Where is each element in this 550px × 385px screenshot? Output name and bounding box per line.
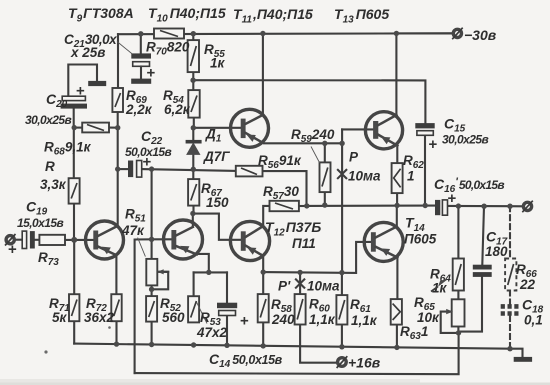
svg-text:0,1: 0,1	[524, 313, 543, 328]
wire R72 bottom to rail	[115, 321, 117, 344]
node output R57	[304, 203, 309, 208]
label R68	[44, 140, 92, 158]
wire diode column upper	[192, 128, 194, 179]
wire R59 top lead	[324, 143, 326, 162]
label C16	[434, 176, 504, 195]
node R67 bottom	[190, 211, 195, 216]
wire R53 top lead	[193, 272, 195, 296]
node R65 wiper	[456, 330, 461, 335]
capacitor C17 180	[473, 265, 492, 277]
resistor R58 240	[258, 294, 269, 322]
label R62	[403, 153, 424, 184]
meter point P' x10ma	[296, 279, 304, 287]
node C22 left	[115, 166, 120, 171]
potentiometer R51 47k	[146, 259, 168, 286]
resistor R69 2.2k	[112, 88, 123, 112]
wire T10 collector to R67 node	[192, 214, 194, 227]
wire R64 top lead	[457, 206, 459, 258]
svg-text:30,0х25в: 30,0х25в	[25, 113, 72, 127]
svg-text:−30в: −30в	[464, 27, 497, 43]
node R68 right	[115, 125, 120, 130]
wire T14 emitter to R63	[396, 257, 398, 299]
svg-text:22: 22	[519, 277, 536, 292]
wire bootstrap y80 to C15	[193, 80, 425, 123]
svg-text:х 25в: х 25в	[70, 45, 105, 60]
wire R52 bottom to rail	[151, 322, 153, 345]
wire R51 bottom to R52	[151, 285, 153, 296]
wire C20 to chassis loop	[68, 65, 97, 97]
label R57	[263, 184, 299, 202]
wire T13 emitter to R62	[396, 145, 398, 163]
svg-text:150: 150	[206, 195, 229, 210]
resistor R66 22 dashed	[505, 206, 516, 290]
label R52	[160, 296, 185, 325]
wire C14 bottom lead	[226, 316, 228, 346]
pointer R59 label	[311, 147, 320, 164]
wire T13 collector to rail	[395, 33, 397, 115]
wire R67 node to T12 base	[193, 214, 241, 240]
node rail R72	[114, 341, 119, 346]
label R 3.3k	[40, 159, 67, 192]
wire midline C22 left lead	[118, 168, 128, 170]
terminal +16v	[337, 356, 348, 368]
resistor R72 36x2	[111, 294, 121, 321]
node rail R53	[191, 342, 196, 347]
wire left column R69/C22 feedback	[117, 34, 119, 226]
label R67	[201, 181, 229, 210]
label P meter	[348, 150, 381, 184]
svg-text:1: 1	[407, 169, 415, 184]
wire C14 top lead	[226, 272, 228, 302]
wire C15 bottom to output	[424, 136, 426, 206]
node rail T13	[394, 31, 399, 36]
wire R64 to R65	[457, 291, 459, 300]
resistor R62 1	[392, 163, 403, 193]
svg-text:10ма: 10ма	[307, 279, 340, 294]
svg-text:R: R	[45, 159, 55, 174]
svg-text:47к: 47к	[121, 223, 145, 238]
node midline diode	[191, 167, 196, 172]
wire T11 collector to rail	[262, 34, 264, 115]
wire R58 leads	[262, 272, 264, 346]
pointer R51 label	[138, 238, 146, 257]
node midline R51	[149, 166, 154, 171]
svg-text:5к: 5к	[52, 310, 68, 325]
wire emitter bus y272 left	[194, 271, 227, 273]
label R72	[84, 296, 115, 325]
pointer C21 label	[117, 42, 132, 55]
transistor label T10	[148, 5, 226, 25]
transistor T11	[231, 109, 269, 147]
label C22	[125, 128, 172, 159]
svg-text:1,1к: 1,1к	[309, 312, 336, 327]
svg-text:47х2: 47х2	[196, 325, 228, 340]
svg-text:50,0х15в: 50,0х15в	[125, 145, 172, 159]
label C21	[64, 32, 117, 60]
wire midline C22 to R56	[142, 169, 236, 171]
wire T11 base lead	[193, 127, 240, 129]
label C18	[522, 297, 544, 328]
label R61	[350, 297, 378, 328]
svg-text:+16в: +16в	[348, 355, 381, 371]
wire T12 collector to R57	[263, 206, 269, 226]
resistor R61 1.1k	[336, 295, 347, 324]
node output R66	[507, 204, 512, 209]
terminal -30v	[452, 28, 463, 40]
wire C20 bottom to R68 node	[73, 109, 75, 128]
transistor T13	[365, 112, 402, 149]
label R64	[430, 267, 451, 296]
resistor R64 1k	[453, 259, 464, 291]
label R59	[291, 127, 335, 145]
node bias R60	[297, 270, 302, 275]
resistor R68 9.1k	[82, 123, 109, 133]
svg-text:30,0х25в: 30,0х25в	[442, 133, 489, 147]
terminal input	[5, 234, 16, 246]
resistor R70 820	[154, 29, 184, 39]
label T12	[265, 219, 321, 251]
wire R73 to T9 base	[65, 239, 93, 241]
wire R71 column	[73, 240, 75, 344]
wire T11 emitter bus y143	[262, 142, 343, 143]
label C17	[485, 229, 508, 260]
stray scan mark after T11 title	[305, 15, 308, 18]
label R73	[38, 250, 59, 268]
resistor R56 91k	[236, 166, 263, 177]
node output R62	[394, 203, 399, 208]
wire R68 left lead	[74, 127, 82, 129]
transistor T14	[364, 222, 403, 261]
svg-text:10ма: 10ма	[348, 169, 381, 184]
label R65	[414, 295, 440, 325]
transistor T9	[86, 221, 124, 259]
transistor label T9	[68, 5, 134, 25]
node output R64	[456, 203, 461, 208]
wire R51 pot column	[151, 169, 153, 259]
node output C17	[481, 204, 486, 209]
resistor R 3.3k	[69, 178, 80, 203]
label C19	[17, 199, 64, 231]
node T11 emitter R59	[322, 141, 327, 146]
node rail R52	[149, 342, 154, 347]
capacitor C20 30.0x25v with chassis bar	[61, 81, 107, 109]
resistor R71 5k	[69, 294, 79, 321]
node T13 base column	[339, 141, 344, 146]
label -30v	[464, 27, 497, 43]
node output R59	[322, 202, 327, 207]
node R55 R54 bootstrap	[190, 78, 195, 83]
node T9 base	[71, 237, 77, 243]
node T10 emitter	[206, 270, 211, 275]
DIODE D1 D7G	[186, 140, 202, 155]
meter point P x10ma	[338, 170, 346, 178]
label P' meter	[278, 279, 340, 294]
stray scan mark after R72 value	[108, 326, 111, 329]
node rail ground corner	[507, 346, 512, 351]
label T14	[404, 215, 437, 247]
transistor label T13	[334, 6, 389, 26]
capacitor C15 30.0x25v	[415, 123, 437, 153]
transistor label T11	[233, 6, 313, 26]
svg-text:2,2к: 2,2к	[125, 102, 153, 117]
label R53	[196, 310, 228, 340]
label R69	[125, 88, 153, 117]
svg-text:560: 560	[162, 310, 185, 325]
capacitor C16 50.0x15v	[435, 190, 457, 215]
label R56	[258, 153, 302, 171]
wire R61 leads	[341, 273, 343, 347]
terminal output	[522, 201, 533, 213]
svg-text:+: +	[147, 65, 156, 82]
capacitor C22 50.0x15v	[128, 154, 152, 178]
wire T13 base lead	[342, 128, 373, 130]
label R60	[309, 297, 336, 328]
resistor R67 150	[188, 179, 199, 206]
resistor R73	[39, 235, 65, 245]
node rail C14	[224, 343, 229, 348]
label C14	[209, 351, 283, 370]
svg-text:Д7Г: Д7Г	[203, 149, 230, 164]
wire R57 right lead	[299, 205, 307, 207]
node R51 wiper	[149, 287, 154, 292]
label R58	[271, 297, 295, 327]
svg-text:+: +	[240, 313, 249, 330]
transistor T12	[230, 221, 269, 260]
resistor R55 1k	[188, 40, 199, 72]
svg-text:+: +	[429, 136, 438, 153]
ground chassis symbol	[514, 357, 532, 362]
wire T12 emitter lead	[261, 255, 263, 272]
label R54	[163, 88, 191, 117]
wire T10 emitter elbow	[197, 254, 209, 272]
svg-text:180: 180	[485, 244, 508, 259]
resistor R59 240	[320, 162, 331, 192]
wire R65 bottom	[457, 327, 459, 333]
wire P meter column	[341, 129, 343, 272]
svg-text:10к: 10к	[417, 310, 440, 325]
wire ground rail	[74, 344, 510, 349]
svg-text:1,1к: 1,1к	[351, 313, 378, 328]
node T11 base	[191, 125, 196, 130]
capacitor C14 50.0x15v	[217, 303, 249, 330]
wire R59 bottom lead	[324, 192, 326, 205]
wire T14 collector to output	[396, 206, 398, 226]
label R66	[516, 262, 537, 292]
wire top supply rail -30v	[118, 32, 453, 35]
wire C19 to R73	[35, 239, 40, 241]
wire -30v terminal lead	[396, 32, 453, 34]
node rail C21	[138, 31, 143, 36]
svg-text:3,3к: 3,3к	[40, 177, 67, 192]
svg-text:П605: П605	[404, 232, 437, 247]
svg-text:П11: П11	[292, 236, 316, 251]
wire ground symbol elbow	[510, 349, 523, 357]
svg-text:+: +	[76, 83, 85, 100]
resistor R52 560	[146, 296, 157, 322]
svg-text:1к: 1к	[210, 56, 226, 71]
wire T9 emitter column to R72	[115, 255, 117, 295]
label +16v	[348, 355, 381, 371]
capacitor C21 30.0x25v with chassis bar	[131, 53, 155, 83]
label R70	[146, 40, 190, 58]
wire bias bus y272 to T14 base	[263, 242, 371, 273]
resistor R54 6.2k	[188, 90, 199, 118]
wire R62 bottom lead	[396, 193, 398, 205]
label R51	[121, 207, 146, 239]
resistor R57 30	[270, 201, 299, 211]
label D1	[203, 127, 230, 165]
svg-text:Р': Р'	[278, 279, 291, 294]
resistor R60 1.1k	[295, 294, 306, 324]
svg-text:Р: Р	[349, 150, 359, 165]
wire bias branch to line B	[135, 239, 152, 373]
wire C17 leads	[459, 206, 484, 331]
label C15	[442, 116, 489, 147]
wire R63 bottom to rail	[396, 325, 398, 348]
node rail R61	[339, 344, 344, 349]
wire output node bus	[307, 205, 524, 208]
wire input to C19	[14, 239, 22, 241]
resistor R53 47x2	[188, 296, 199, 322]
wire line B bias feedback	[135, 333, 459, 374]
resistor R63 1	[391, 299, 402, 325]
wire R60 leads to +16v	[300, 272, 337, 362]
potentiometer R65 10k	[446, 299, 464, 326]
wire C21 stub from rail	[140, 34, 142, 54]
svg-text:240: 240	[271, 312, 295, 327]
capacitor C18 0.1 dashed	[501, 291, 520, 349]
svg-text:15,0х15в: 15,0х15в	[17, 216, 64, 230]
node T10 base	[149, 237, 154, 242]
wire T10 base lead	[152, 238, 172, 240]
node rail R55	[191, 31, 196, 36]
node rail R58	[261, 343, 266, 348]
wire R65 wiper tie	[441, 312, 459, 333]
wire R55 R54 column	[192, 34, 195, 128]
wire R 3.3k column	[73, 128, 75, 240]
node T12 emitter R58	[261, 269, 266, 274]
transistor T10	[164, 220, 203, 259]
wire R51 wiper tie	[152, 272, 169, 290]
svg-text:36х2: 36х2	[84, 310, 115, 325]
capacitor C19 15.0x15v	[8, 231, 35, 258]
label R71	[49, 296, 70, 325]
label C20	[25, 91, 72, 127]
wire R68 right lead	[109, 127, 118, 129]
svg-text:6,2к: 6,2к	[164, 102, 191, 117]
node rail R63	[394, 345, 399, 350]
wire R67 bottom lead	[192, 206, 194, 214]
node output C15	[423, 203, 428, 208]
stray scan mark bottom-left	[44, 350, 47, 353]
label R63	[400, 324, 428, 342]
node bias R61	[339, 270, 344, 275]
wire R56 right elbow	[263, 171, 307, 206]
pointer R53 label	[197, 302, 208, 324]
node rail T11	[260, 31, 265, 36]
node R68 left	[72, 125, 77, 130]
label R55	[204, 42, 226, 71]
